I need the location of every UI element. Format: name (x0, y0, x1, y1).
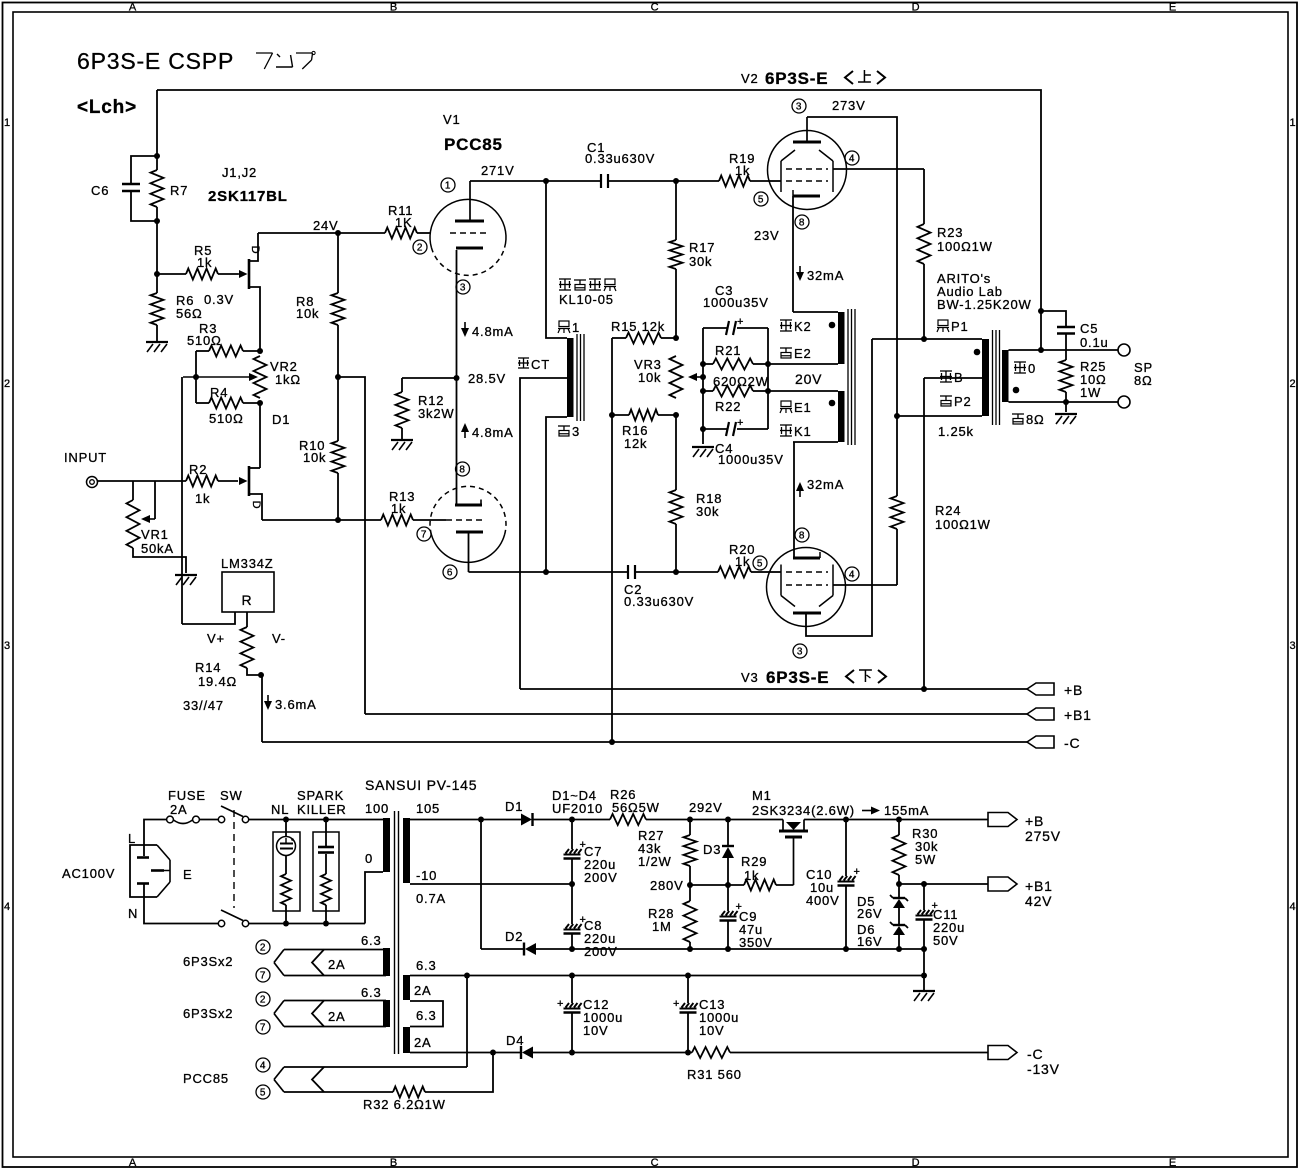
resistor R13 (381, 515, 413, 526)
phase dot OPT secondary (1013, 387, 1020, 394)
resistor R26 (610, 814, 646, 825)
node junction NL top (283, 817, 289, 823)
label murasaki K1 (780, 424, 792, 426)
node junction tap3/C2 (543, 569, 549, 575)
resistor R24 (891, 496, 904, 529)
wire +B1 row psu (899, 883, 988, 885)
switch SW pole1 (218, 816, 224, 822)
wire speaker ground lead (1065, 402, 1067, 412)
transformer T4 heater winding right chain (403, 975, 410, 1000)
wire M1 source to +B (804, 819, 988, 821)
tube V1 upper triode (430, 199, 506, 247)
svg-text:23V: 23V (754, 228, 780, 243)
wire secondary top row (1009, 349, 1119, 351)
svg-text:10V: 10V (699, 1023, 725, 1038)
node junction R18 bottom (673, 569, 679, 575)
node junction R8/R10 (335, 374, 341, 380)
transformer T4 core (394, 811, 396, 1054)
transformer T3 core (992, 330, 994, 425)
wire LM334 V+ rail (181, 377, 183, 624)
svg-text:200V: 200V (584, 870, 618, 885)
svg-text:6: 6 (447, 568, 453, 579)
svg-text:6.3: 6.3 (361, 985, 381, 1000)
svg-text:4: 4 (4, 901, 11, 913)
svg-text:R7: R7 (170, 183, 188, 198)
wire R13 row (262, 519, 381, 521)
transformer T1 KL10-05 winding (567, 338, 574, 417)
connector +B1 psu (988, 877, 1017, 891)
wire K2 row (793, 311, 838, 313)
svg-text:E: E (1169, 1157, 1177, 1169)
resistor R20 (676, 571, 718, 573)
phase dot upper winding (829, 322, 836, 329)
svg-text:3: 3 (1290, 640, 1297, 652)
node junction D6 bottom (896, 946, 902, 952)
wire switch to transformer 100 (249, 819, 384, 821)
svg-text:8: 8 (799, 218, 805, 229)
heater band 6P3S #1 (284, 949, 386, 951)
node junction R28 bottom (687, 946, 693, 952)
wire 0 tap (365, 872, 383, 924)
svg-text:8: 8 (799, 531, 805, 542)
svg-text:UF2010: UF2010 (552, 801, 603, 816)
svg-text:273V: 273V (832, 98, 866, 113)
transformer T3 OPT primary winding (982, 339, 989, 416)
svg-text:28.5V: 28.5V (468, 371, 506, 386)
capacitor C3 (703, 327, 727, 329)
wire left rail down from top rail (156, 90, 158, 156)
svg-text:J1,J2: J1,J2 (222, 165, 257, 180)
svg-text:105: 105 (416, 801, 440, 816)
svg-text:7: 7 (260, 971, 266, 982)
wire V3 pin4 row (833, 584, 897, 586)
node junction D1/D2 branch (478, 817, 484, 823)
svg-text:1: 1 (1290, 117, 1297, 129)
capacitor C10 (845, 820, 847, 877)
tube V3 grids (786, 571, 828, 573)
node junction R30 top (896, 817, 902, 823)
resistor R14 (246, 612, 248, 627)
pin 2 label heater1 (256, 940, 270, 954)
node junction C7 top (569, 817, 575, 823)
connector +B (1027, 683, 1054, 695)
node junction R16 left (609, 412, 615, 418)
svg-text:2A: 2A (414, 1035, 432, 1050)
capacitor C5 (1041, 311, 1066, 326)
node junction C6/R7 bottom (154, 218, 160, 224)
svg-text:8Ω: 8Ω (1134, 373, 1153, 388)
svg-text:3: 3 (4, 640, 11, 652)
wire ground rail to heater rail (923, 949, 925, 976)
svg-text:1K: 1K (395, 215, 413, 230)
ground under R6 (146, 341, 168, 343)
svg-text:R4: R4 (210, 385, 228, 400)
svg-text:NL: NL (271, 802, 289, 817)
node junction heater rail PCC85 (464, 973, 470, 979)
transistor M1 2SK3234 MOSFET (782, 820, 784, 831)
node junction 280V (687, 882, 693, 888)
node junction VR2 wiper rail (193, 374, 199, 380)
svg-text:+: + (557, 998, 564, 1010)
label down 3.6mA (267, 695, 269, 704)
diode D2 (481, 948, 524, 950)
svg-text:R23: R23 (937, 225, 963, 240)
svg-text:SW: SW (220, 788, 243, 803)
ground under R12 (391, 439, 413, 441)
wire E2 row (768, 363, 838, 365)
svg-text:E: E (1169, 2, 1177, 14)
diode D4 (522, 1047, 533, 1059)
svg-text:3.6mA: 3.6mA (275, 697, 317, 712)
svg-text:1000u35V: 1000u35V (718, 452, 784, 467)
svg-text:1M: 1M (652, 919, 672, 934)
wire tap 3 to C2 row (546, 417, 567, 572)
label up 4.8mA (464, 429, 466, 438)
svg-text:A: A (129, 2, 137, 14)
capacitor C2 (627, 565, 629, 579)
label midori E2 (780, 347, 792, 349)
resistor R4 (196, 402, 209, 404)
wire fuse to switch (200, 819, 219, 821)
svg-text:SPARK: SPARK (297, 788, 344, 803)
svg-text:K2: K2 (794, 319, 812, 334)
transformer T4 heater winding left1 (383, 948, 390, 976)
tube V3 plate (793, 612, 821, 615)
svg-text:510Ω: 510Ω (209, 411, 244, 426)
svg-text:E: E (183, 867, 192, 882)
label ao E1 (781, 401, 791, 407)
phase dot OPT primary (974, 349, 981, 356)
svg-text:B: B (390, 2, 398, 14)
svg-text:155mA: 155mA (884, 803, 929, 818)
capacitor C4 (703, 428, 727, 430)
node junction R32/D4 (490, 1050, 496, 1056)
svg-text:5: 5 (757, 559, 763, 570)
wire -C row psu (533, 1052, 692, 1054)
wire 6.3V heater rail (410, 975, 924, 977)
node junction C6/R7 top (154, 153, 160, 159)
wire V1 cathode rail (456, 250, 458, 505)
svg-text:PCC85: PCC85 (183, 1071, 229, 1086)
node junction P1 (921, 336, 927, 342)
svg-text:3: 3 (460, 283, 466, 294)
wire VR2 rail to J2 source (259, 403, 261, 468)
svg-text:+: + (737, 417, 744, 429)
svg-text:R31 560: R31 560 (687, 1067, 742, 1082)
svg-text:1k: 1k (391, 501, 406, 516)
wire D2 branch (480, 820, 482, 950)
wire ground rail psu (536, 948, 924, 950)
pin 1 label V1 (441, 178, 455, 192)
svg-text:5: 5 (260, 1088, 266, 1099)
transformer T4 PV-145 primary winding (383, 818, 390, 872)
transistor J2 2SK117BL JFET (239, 477, 248, 485)
tube V2 6P3S-E envelope (768, 131, 847, 210)
pin 3 label V3 (793, 644, 807, 658)
svg-text:KL10-05: KL10-05 (559, 292, 614, 307)
svg-text:C6: C6 (91, 183, 109, 198)
svg-text:M1: M1 (752, 788, 772, 803)
wire L to fuse (144, 820, 166, 857)
wire to R5 node (156, 221, 158, 274)
connector -C (1027, 736, 1054, 748)
svg-text:6P3S-E: 6P3S-E (766, 668, 829, 687)
switch link dashed (233, 810, 235, 908)
svg-text:R15 12k: R15 12k (611, 319, 665, 334)
node junction C9 bottom (725, 946, 731, 952)
svg-text:PCC85: PCC85 (444, 135, 503, 154)
wire N to switch pole2 (144, 884, 218, 924)
svg-text:-C: -C (1027, 1046, 1043, 1062)
node junction C12 bottom (569, 1050, 575, 1056)
fuse FUSE 2A (167, 816, 174, 823)
transformer T4 heater winding left2 (383, 1000, 390, 1027)
resistor R28 (689, 885, 691, 901)
wire to +B1 drop (338, 377, 365, 714)
resistor R27 (689, 820, 691, 836)
svg-text:6P3Sx2: 6P3Sx2 (183, 954, 233, 969)
svg-text:280V: 280V (650, 878, 684, 893)
potentiometer VR2 (254, 356, 267, 398)
pin 7 label V1 (417, 527, 431, 541)
svg-text:-10: -10 (416, 868, 437, 883)
svg-text:6.3: 6.3 (361, 933, 381, 948)
svg-text:AC100V: AC100V (62, 866, 115, 881)
svg-text:510Ω: 510Ω (187, 333, 222, 348)
pin 8 label V3 (795, 528, 809, 542)
svg-text:E1: E1 (794, 400, 812, 415)
node junction SK top (323, 817, 329, 823)
resistor R7 (156, 156, 158, 170)
wire secondary bottom row (1009, 401, 1119, 403)
pin 3 label V1 (456, 280, 470, 294)
node junction bridge R21 left (700, 361, 706, 367)
ground under bridge (692, 446, 714, 448)
capacitor C7 (571, 820, 573, 850)
node junction C11 bottom (921, 946, 927, 952)
node junction C8 bottom (569, 946, 575, 952)
ground psu (913, 990, 935, 992)
tube V2 beam electrodes (781, 150, 795, 161)
svg-text:L: L (128, 831, 136, 846)
node junction D3 bottom (725, 882, 731, 888)
pin 5 label V2 (754, 192, 768, 206)
svg-text:+B: +B (1025, 813, 1044, 829)
svg-text:400V: 400V (806, 893, 840, 908)
svg-text:56Ω: 56Ω (176, 306, 203, 321)
svg-text:+B1: +B1 (1025, 878, 1053, 894)
svg-text:0.33u630V: 0.33u630V (624, 594, 694, 609)
wire 105 to D1 row (410, 819, 521, 821)
phase dot lower winding (829, 400, 836, 407)
svg-text:BW-1.25K20W: BW-1.25K20W (937, 297, 1032, 312)
heater band 6P3S #2 (284, 1000, 386, 1002)
transformer T3 secondary winding (1002, 350, 1009, 402)
svg-text:1k: 1k (197, 255, 212, 270)
resistor R8 (337, 233, 339, 293)
node junction C13 bottom (685, 1050, 691, 1056)
svg-text:D: D (912, 2, 921, 14)
svg-text:V+: V+ (207, 631, 225, 646)
wire V2 cathode to K2 (792, 196, 794, 312)
wire heater rail ground lead (923, 976, 925, 991)
pin 4 label V3 (845, 567, 859, 581)
svg-text:D1: D1 (505, 799, 523, 814)
diode D3 (727, 820, 729, 846)
wire 6.3 box link (410, 1001, 443, 1027)
potentiometer VR3 (670, 356, 683, 398)
wire +B1 rail (365, 713, 1027, 715)
svg-text:D3: D3 (703, 842, 721, 857)
svg-text:B: B (954, 370, 963, 385)
wire R15/R16 left rail to -C (611, 338, 613, 742)
svg-text:2SK117BL: 2SK117BL (208, 188, 288, 205)
node junction +B (921, 686, 927, 692)
svg-text:P1: P1 (951, 319, 969, 334)
wire +B rail (520, 688, 1027, 690)
svg-text:3k2W: 3k2W (418, 406, 454, 421)
pin 7 label heater1 (256, 968, 270, 982)
svg-text:+B1: +B1 (1064, 707, 1092, 723)
label down 4.8mA (464, 322, 466, 331)
svg-text:CT: CT (531, 357, 550, 372)
wire E1 row (768, 390, 838, 392)
svg-text:10k: 10k (303, 450, 326, 465)
node junction R8 top (335, 230, 341, 236)
capacitor C9 (727, 885, 729, 911)
svg-text:1k: 1k (195, 491, 210, 506)
resistor R15 (612, 337, 626, 339)
svg-text:FUSE: FUSE (168, 788, 206, 803)
svg-text:R17: R17 (689, 240, 715, 255)
svg-text:7: 7 (421, 530, 427, 541)
svg-text:D4: D4 (506, 1033, 524, 1048)
svg-text:+: + (673, 998, 680, 1010)
svg-text:24V: 24V (313, 218, 339, 233)
resistor R30 (898, 820, 900, 836)
svg-text:N: N (128, 906, 138, 921)
svg-text:32mA: 32mA (807, 477, 844, 492)
svg-text:1: 1 (4, 117, 11, 129)
node junction -C rail (609, 739, 615, 745)
wire 273V to P2 rail (807, 117, 897, 496)
transistor J1 2SK117BL JFET (239, 270, 248, 278)
label hai 0 (1014, 361, 1026, 363)
pin 3 label V2 (792, 99, 806, 113)
svg-text:1/2W: 1/2W (638, 854, 672, 869)
node junction R17 top (673, 178, 679, 184)
svg-text:2: 2 (4, 378, 11, 390)
resistor R25 (1060, 360, 1073, 392)
svg-text:4.8mA: 4.8mA (472, 324, 514, 339)
svg-text:2A: 2A (414, 983, 432, 998)
svg-text:D1: D1 (272, 412, 290, 427)
pin 5 label heater3 (256, 1085, 270, 1099)
svg-text:R2: R2 (189, 462, 207, 477)
svg-text:D2: D2 (505, 929, 523, 944)
svg-text:6P3S-E CSPP: 6P3S-E CSPP (77, 48, 234, 74)
node junction C5 top (1038, 308, 1044, 314)
node junction to driver transformer (543, 178, 549, 184)
label kuro 8ohm (1012, 413, 1024, 415)
svg-text:K1: K1 (794, 424, 812, 439)
svg-text:20V: 20V (795, 371, 822, 387)
svg-text:292V: 292V (689, 800, 723, 815)
svg-text:100Ω1W: 100Ω1W (935, 517, 991, 532)
svg-text:D: D (912, 1157, 921, 1169)
transformer T2 cathode winding lower E1/K1 (838, 391, 845, 442)
wire top feedback rail (157, 90, 1041, 350)
svg-text:SANSUI PV-145: SANSUI PV-145 (365, 777, 477, 793)
svg-text:C5: C5 (1080, 321, 1098, 336)
tube V2 cathode (793, 195, 820, 198)
svg-text:4: 4 (1290, 901, 1297, 913)
svg-text:8: 8 (459, 465, 465, 476)
svg-text:42V: 42V (1025, 893, 1052, 909)
svg-text:R32 6.2Ω1W: R32 6.2Ω1W (363, 1097, 446, 1112)
resistor R21 (703, 363, 713, 365)
wire center tap (520, 378, 567, 689)
svg-text:19.4Ω: 19.4Ω (198, 674, 237, 689)
svg-text:6.3: 6.3 (416, 1008, 436, 1023)
svg-text:6P3S-E: 6P3S-E (765, 69, 828, 88)
svg-text:<Lch>: <Lch> (77, 97, 137, 118)
speaker jack SP+ (1118, 344, 1130, 356)
svg-text:2: 2 (260, 943, 266, 954)
node junction NL bottom (283, 921, 289, 927)
svg-text:INPUT: INPUT (64, 450, 107, 465)
connector +B1 (1027, 708, 1054, 720)
svg-text:2: 2 (260, 995, 266, 1006)
wire P2 row (897, 415, 982, 417)
svg-text:0: 0 (1028, 361, 1036, 376)
capacitor C12 (571, 976, 573, 1004)
potentiometer VR1 (132, 481, 134, 500)
pin 7 label heater2 (256, 1020, 270, 1034)
pin 4 label heater3 (256, 1058, 270, 1072)
svg-text:2: 2 (1290, 378, 1297, 390)
svg-text:R21: R21 (715, 343, 741, 358)
svg-text:6.3: 6.3 (416, 958, 436, 973)
resistor R12 (402, 377, 457, 379)
svg-text:5: 5 (758, 195, 764, 206)
tube V3 beam electrodes (781, 596, 795, 607)
svg-text:7: 7 (260, 1023, 266, 1034)
wire B to +B rail (923, 378, 925, 689)
svg-text:1000u35V: 1000u35V (703, 295, 769, 310)
wire PCC85 heater drop (466, 976, 468, 1068)
wire V3 cathode to K1 (793, 442, 795, 558)
node junction R30 bottom (896, 881, 902, 887)
resistor R17 (675, 181, 677, 240)
node junction D3 top (725, 817, 731, 823)
node junction ground/heater (921, 973, 927, 979)
transformer T2 cathode winding upper K2/E2 (838, 312, 845, 364)
label dai P2 (940, 395, 952, 397)
svg-text:56Ω5W: 56Ω5W (612, 800, 660, 815)
svg-text:3: 3 (796, 102, 802, 113)
node junction R25 bottom (1063, 399, 1069, 405)
label dai3 (558, 425, 570, 427)
node junction R5 branch (154, 271, 160, 277)
node junction bridge R22 right (765, 388, 771, 394)
node junction bridge wiper (700, 374, 706, 380)
wire -10 row (410, 883, 572, 885)
connector -C psu (988, 1046, 1017, 1060)
resistor R5 (157, 273, 186, 275)
pin 6 label V1 (443, 565, 457, 579)
zener diode D6 (898, 908, 900, 925)
